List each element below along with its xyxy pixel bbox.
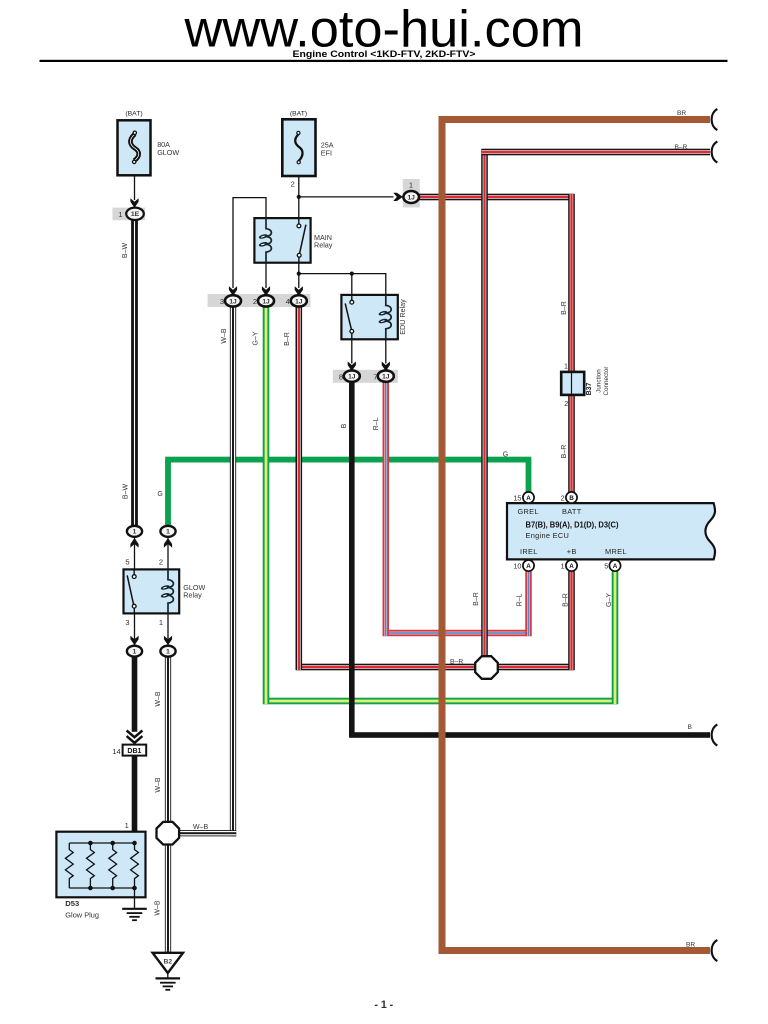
svg-text:G–Y: G–Y xyxy=(606,593,613,607)
ground B2 lead xyxy=(167,973,169,978)
svg-text:B: B xyxy=(569,495,574,502)
wire B vertical glow relay pin3 to DB1 xyxy=(132,656,138,732)
connector 1J-2 xyxy=(258,295,274,306)
wire B horizontal thick to right xyxy=(349,732,710,738)
svg-text:Relay: Relay xyxy=(314,241,333,250)
junction connector B37 box xyxy=(561,372,584,395)
svg-text:4: 4 xyxy=(286,297,290,306)
svg-text:1: 1 xyxy=(564,361,568,370)
splice DB1 box xyxy=(123,745,147,756)
svg-text:B7(B), B9(A), D1(D), D3(C): B7(B), B9(A), D1(D), D3(C) xyxy=(526,521,619,530)
relay MAIN switch xyxy=(297,218,306,263)
splice chevrons into DB1 xyxy=(127,731,143,743)
ECU box xyxy=(507,503,715,559)
connector 1J-8 xyxy=(344,370,360,381)
svg-text:1: 1 xyxy=(133,529,137,536)
svg-text:Connector: Connector xyxy=(603,366,610,395)
wire G-Y horizontal ECU MREL to 1J-2 xyxy=(263,698,618,705)
fusible link 80A GLOW box xyxy=(118,120,151,175)
svg-text:B: B xyxy=(688,724,693,731)
svg-text:1J: 1J xyxy=(408,194,416,201)
arrow up into oval pin2 xyxy=(164,538,172,548)
relay EDU switch xyxy=(345,295,353,339)
svg-text:G–Y: G–Y xyxy=(252,331,259,345)
svg-text:W–B: W–B xyxy=(154,900,161,916)
svg-text:Engine ECU: Engine ECU xyxy=(526,531,570,540)
wire G vertical to glow relay pin2 xyxy=(165,460,171,527)
wire junction to connector 1J-1 xyxy=(299,196,394,198)
splice node W-B xyxy=(157,822,180,845)
pin 1 (A) +B xyxy=(566,560,577,571)
svg-text:EFI: EFI xyxy=(321,148,332,157)
splice node B-R xyxy=(475,656,498,679)
svg-text:1: 1 xyxy=(159,618,163,627)
arrow up into oval pin5 xyxy=(130,538,138,548)
svg-text:A: A xyxy=(526,563,531,570)
resistor glow plug 3 xyxy=(109,843,117,888)
header rule xyxy=(40,60,728,62)
wire B-W vertical fuse to glow relay xyxy=(131,220,138,527)
connector strip 1J pin1 xyxy=(403,179,420,207)
resistor glow plug 1 xyxy=(65,843,73,888)
svg-text:1: 1 xyxy=(133,649,137,656)
wire G vertical to ECU GREL pin15 xyxy=(526,460,532,493)
fuse 25A EFI box xyxy=(282,119,315,176)
wire MAIN relay coil to connector 1J-2 xyxy=(265,263,267,288)
label 80A GLOW xyxy=(157,140,179,157)
svg-text:(BAT): (BAT) xyxy=(290,110,307,117)
svg-text:Glow Plug: Glow Plug xyxy=(65,911,99,920)
svg-text:B–R: B–R xyxy=(561,301,568,315)
svg-text:GREL: GREL xyxy=(518,507,539,516)
svg-text:W–B: W–B xyxy=(155,691,162,707)
connector 1J-7 xyxy=(378,370,394,381)
wire glow relay pin1 lead xyxy=(167,612,169,646)
svg-text:3: 3 xyxy=(125,618,129,627)
svg-text:2: 2 xyxy=(253,297,257,306)
svg-text:G: G xyxy=(503,451,508,458)
connector 1J-4 xyxy=(291,295,307,306)
svg-text:2: 2 xyxy=(564,399,568,408)
wire B-R horizontal top right xyxy=(482,149,711,156)
svg-text:1E: 1E xyxy=(131,211,140,218)
arrow into 1J-1 xyxy=(393,193,403,201)
svg-text:Relay: Relay xyxy=(183,591,202,600)
svg-text:1: 1 xyxy=(560,562,564,571)
wire W-B horizontal splice link xyxy=(179,830,236,836)
wire break curl B-R top xyxy=(712,141,718,162)
svg-text:Junction: Junction xyxy=(596,369,603,393)
arrow into 1J-2 xyxy=(262,286,270,296)
svg-text:R–L: R–L xyxy=(517,593,524,606)
arrow into 1J-7 xyxy=(382,362,390,372)
connector 1J-3 xyxy=(225,295,241,306)
svg-text:2: 2 xyxy=(560,494,564,503)
svg-text:BR: BR xyxy=(677,110,686,117)
svg-text:2: 2 xyxy=(291,180,295,189)
resistor glow plug 2 xyxy=(87,843,95,888)
arrow into 1J-8 xyxy=(348,362,356,372)
svg-text:1J: 1J xyxy=(382,374,390,381)
connector oval above glow relay pin2 xyxy=(160,526,175,537)
resistor glow plug 4 xyxy=(131,843,139,888)
wire B-R vertical from top feed to splice xyxy=(481,149,488,657)
svg-text:B2: B2 xyxy=(163,958,172,965)
svg-text:1J: 1J xyxy=(348,374,356,381)
label Junction Connector xyxy=(596,366,611,395)
pin 5 (A) MREL xyxy=(609,560,620,571)
wire BR brown horizontal top xyxy=(439,116,711,123)
wire BR brown main vertical xyxy=(439,116,446,954)
svg-text:B: B xyxy=(341,423,348,428)
svg-text:5: 5 xyxy=(125,557,129,566)
pin 2 (B) BATT xyxy=(566,492,577,503)
svg-text:1: 1 xyxy=(166,649,170,656)
wire break curl BR top xyxy=(712,109,718,130)
svg-text:A: A xyxy=(569,563,574,570)
ground chassis B2 xyxy=(156,978,181,989)
wire G horizontal glow relay to ECU GREL xyxy=(165,457,531,463)
wire glow relay pin5 lead xyxy=(134,537,136,571)
junction node EDU switch feed xyxy=(350,272,354,276)
svg-text:MREL: MREL xyxy=(605,547,627,556)
svg-text:1: 1 xyxy=(166,529,170,536)
wire R-L vertical 1J-7 down xyxy=(383,381,390,636)
wire R-L vertical ECU IREL xyxy=(525,571,532,636)
wire MAIN relay coil to connector 1J-3 xyxy=(233,198,266,288)
wire B-R horizontal splice row xyxy=(296,664,575,671)
svg-text:+B: +B xyxy=(567,547,577,556)
wire EFI fuse pin2 to MAIN relay switch xyxy=(298,176,300,224)
svg-text:B–R: B–R xyxy=(450,659,463,666)
relay GLOW box xyxy=(124,569,180,613)
svg-text:A: A xyxy=(613,563,618,570)
label GLOW Relay xyxy=(183,583,205,600)
ground chassis below glow plug xyxy=(122,909,147,920)
arrow into 1E xyxy=(130,198,138,208)
wire W-B vertical 1J-3 down xyxy=(230,306,236,836)
arrow into oval pin1 xyxy=(164,636,172,646)
wire B-R horizontal 1J-1 to B37 column xyxy=(419,194,575,201)
svg-text:G: G xyxy=(157,491,162,498)
svg-text:W–B: W–B xyxy=(193,824,209,831)
relay GLOW switch xyxy=(127,569,136,613)
wire EDU relay switch to connector 1J-8 xyxy=(351,331,353,363)
connector strip 1E xyxy=(113,208,146,221)
wire G-Y vertical ECU MREL xyxy=(612,571,619,704)
wire junction to EDU relay switch xyxy=(351,274,353,303)
connector oval below glow relay pin3 xyxy=(127,646,142,657)
svg-text:B–R: B–R xyxy=(284,332,291,346)
wire B-R vertical ECU +B xyxy=(568,571,575,670)
svg-text:B–R: B–R xyxy=(473,592,480,606)
connector oval below glow relay pin1 xyxy=(160,646,175,657)
connector strip 1J pins 3,2,4 xyxy=(208,294,311,307)
svg-text:1: 1 xyxy=(118,210,122,219)
svg-text:5: 5 xyxy=(604,562,608,571)
connector oval above glow relay pin5 xyxy=(127,526,142,537)
pin 15 (A) GREL xyxy=(523,492,534,503)
wire B-R vertical 1J-4 down xyxy=(296,306,303,670)
junction node MAIN relay output xyxy=(297,272,301,276)
label MAIN Relay xyxy=(314,233,333,250)
svg-text:EDU Relay: EDU Relay xyxy=(398,299,407,335)
svg-text:10: 10 xyxy=(513,562,521,571)
svg-text:B–R: B–R xyxy=(675,144,688,151)
svg-text:B–R: B–R xyxy=(561,445,568,459)
glow plug bottom rail xyxy=(69,887,134,889)
svg-text:IREL: IREL xyxy=(520,547,538,556)
svg-text:1J: 1J xyxy=(295,298,303,305)
svg-text:B37: B37 xyxy=(586,382,593,395)
wire BR brown horizontal bottom xyxy=(442,947,710,954)
relay MAIN coil xyxy=(258,218,271,263)
svg-text:1J: 1J xyxy=(262,298,270,305)
svg-text:1: 1 xyxy=(409,181,413,190)
label 25A EFI xyxy=(321,140,334,157)
svg-text:B–W: B–W xyxy=(122,484,129,500)
svg-text:14: 14 xyxy=(112,747,120,756)
glow plug ground lead xyxy=(134,888,136,909)
wire GLOW fuse to connector 1E xyxy=(134,175,136,200)
svg-text:2: 2 xyxy=(159,557,163,566)
wire B-R vertical 1J-1 to B37 to ECU BATT xyxy=(568,194,575,493)
wire MAIN relay junction to EDU relay xyxy=(299,274,386,296)
glow plug D53 box xyxy=(56,832,145,898)
pin 10 (A) IREL xyxy=(523,560,534,571)
svg-text:R–L: R–L xyxy=(373,417,380,430)
junction node EFI feed xyxy=(297,195,301,199)
connector 1J-1 xyxy=(403,191,419,203)
svg-text:BATT: BATT xyxy=(562,507,582,516)
relay MAIN box xyxy=(254,218,310,263)
svg-text:A: A xyxy=(526,495,531,502)
svg-text:15: 15 xyxy=(513,494,521,503)
svg-text:8: 8 xyxy=(339,372,343,381)
wire G-Y vertical 1J-2 down xyxy=(263,306,270,704)
svg-text:W–B: W–B xyxy=(155,777,162,793)
wire W-B vertical glow relay pin1 to splice xyxy=(165,656,171,822)
svg-text:B–W: B–W xyxy=(122,243,129,259)
svg-text:DB1: DB1 xyxy=(127,748,141,755)
wire break curl B xyxy=(712,724,718,745)
connector 1E xyxy=(126,208,144,220)
wire R-L horizontal ECU IREL to EDU xyxy=(383,630,532,637)
relay EDU box xyxy=(341,295,397,339)
fusible link element xyxy=(130,131,138,163)
wire B vertical 1J-8 down xyxy=(349,381,355,737)
wire W-B vertical splice to ground B2 xyxy=(165,844,171,953)
wire glow relay pin2 lead xyxy=(167,537,169,571)
arrow into oval pin3 xyxy=(130,636,138,646)
svg-text:1J: 1J xyxy=(229,298,237,305)
relay EDU coil xyxy=(378,295,391,339)
svg-text:GLOW: GLOW xyxy=(157,148,179,157)
svg-text:Engine Control <1KD-FTV, 2KD-F: Engine Control <1KD-FTV, 2KD-FTV> xyxy=(293,49,476,59)
wire glow relay pin3 lead xyxy=(134,612,136,646)
arrow into 1J-4 xyxy=(295,286,303,296)
wire B vertical DB1 to glow plug xyxy=(132,756,138,832)
wire EDU relay coil to connector 1J-7 xyxy=(385,337,387,364)
connector strip 1J pins 8,7 xyxy=(333,370,398,383)
svg-text:3: 3 xyxy=(220,297,224,306)
glow plug junction dots xyxy=(88,841,137,891)
svg-text:W–B: W–B xyxy=(221,328,228,344)
svg-text:(BAT): (BAT) xyxy=(125,110,142,117)
fuse element xyxy=(295,131,302,164)
arrow into 1J-3 xyxy=(229,286,237,296)
glow plug top rail xyxy=(69,842,134,844)
svg-text:- 1 -: - 1 - xyxy=(374,999,393,1011)
svg-text:B–R: B–R xyxy=(563,593,570,607)
wire break curl BR bottom xyxy=(712,940,718,961)
svg-text:BR: BR xyxy=(686,942,695,949)
svg-text:1: 1 xyxy=(125,821,129,830)
svg-text:D53: D53 xyxy=(65,899,79,908)
ground B2 triangle xyxy=(153,953,183,973)
relay GLOW coil xyxy=(160,569,173,613)
wire MAIN relay switch to junction and 1J-4 xyxy=(298,255,300,288)
